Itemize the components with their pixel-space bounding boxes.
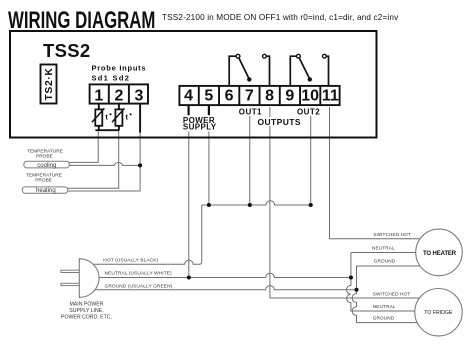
svg-text:cooling: cooling bbox=[37, 163, 56, 169]
svg-text:TSS2-2100 in MODE ON OFF1 with: TSS2-2100 in MODE ON OFF1 with r0=ind, c… bbox=[162, 13, 399, 22]
svg-text:TS2·K: TS2·K bbox=[44, 67, 55, 100]
svg-text:8: 8 bbox=[265, 88, 274, 105]
svg-text:PROBE: PROBE bbox=[35, 178, 52, 184]
svg-text:GROUND: GROUND bbox=[374, 259, 396, 264]
svg-text:GROUND (USUALLY GREEN): GROUND (USUALLY GREEN) bbox=[105, 284, 173, 290]
svg-text:7: 7 bbox=[245, 88, 254, 105]
svg-text:NEUTRAL: NEUTRAL bbox=[372, 246, 395, 251]
svg-text:GROUND: GROUND bbox=[373, 316, 395, 321]
svg-text:11: 11 bbox=[322, 88, 339, 105]
svg-text:WIRING DIAGRAM: WIRING DIAGRAM bbox=[8, 7, 155, 34]
svg-text:1: 1 bbox=[94, 88, 103, 105]
svg-text:SUPPLY: SUPPLY bbox=[183, 123, 217, 132]
svg-text:OUT2: OUT2 bbox=[297, 107, 320, 116]
svg-text:SWITCHED HOT: SWITCHED HOT bbox=[373, 291, 410, 296]
svg-text:NEUTRAL (USUALLY WHITE): NEUTRAL (USUALLY WHITE) bbox=[105, 271, 173, 277]
svg-text:SUPPLY LINE,: SUPPLY LINE, bbox=[69, 308, 103, 314]
svg-text:HOT (USUALLY BLACK): HOT (USUALLY BLACK) bbox=[103, 257, 158, 263]
svg-text:PROBE: PROBE bbox=[36, 154, 53, 160]
svg-text:MAIN POWER: MAIN POWER bbox=[69, 302, 103, 308]
svg-text:9: 9 bbox=[285, 88, 294, 105]
svg-text:TO HEATER: TO HEATER bbox=[423, 251, 457, 257]
svg-text:TSS2: TSS2 bbox=[43, 40, 90, 61]
svg-text:5: 5 bbox=[204, 88, 213, 105]
svg-text:POWER CORD, ETC.: POWER CORD, ETC. bbox=[61, 315, 112, 321]
svg-text:SWITCHED HOT: SWITCHED HOT bbox=[373, 232, 410, 237]
svg-text:Probe Inputs: Probe Inputs bbox=[92, 64, 147, 73]
svg-text:TEMPERATURE: TEMPERATURE bbox=[26, 172, 62, 178]
svg-text:OUT1: OUT1 bbox=[239, 107, 262, 116]
svg-text:Sd1 Sd2: Sd1 Sd2 bbox=[92, 73, 131, 82]
svg-text:6: 6 bbox=[225, 88, 234, 105]
svg-text:heating: heating bbox=[36, 188, 56, 194]
svg-text:3: 3 bbox=[135, 88, 144, 105]
svg-text:TO FRIDGE: TO FRIDGE bbox=[424, 310, 453, 316]
svg-text:2: 2 bbox=[114, 88, 123, 105]
svg-text:OUTPUTS: OUTPUTS bbox=[258, 117, 301, 127]
svg-text:NEUTRAL: NEUTRAL bbox=[373, 304, 396, 309]
svg-text:10: 10 bbox=[301, 88, 319, 105]
svg-text:4: 4 bbox=[184, 88, 193, 105]
